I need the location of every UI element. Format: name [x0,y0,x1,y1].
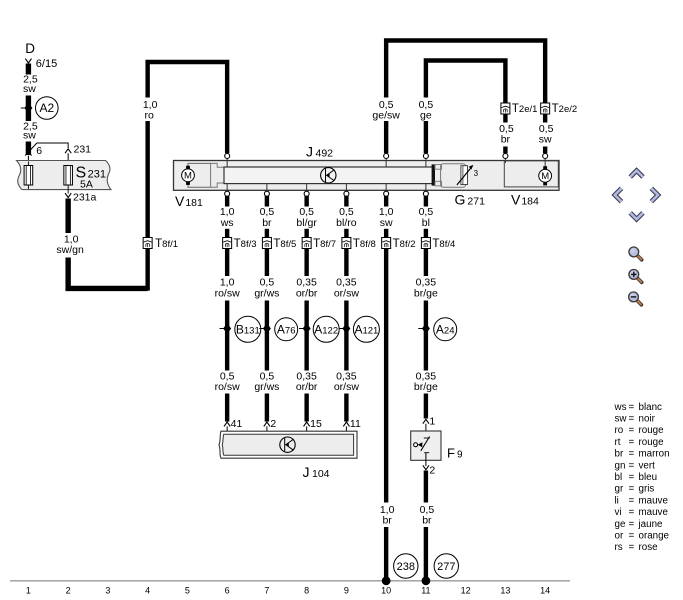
splice A121 [339,323,351,334]
J492 top terminal (col6) [226,158,228,167]
J104 pin 15 [304,422,310,426]
nav arrow right [651,188,658,201]
svg-text:A76: A76 [277,323,296,337]
connector T8f/8 [342,238,351,249]
svg-text:14: 14 [540,586,550,596]
G271 connector funnel [435,165,442,170]
svg-text:gr/ws: gr/ws [254,381,279,393]
wire into connector T8f/8 [344,229,348,238]
connector T8f/3 [223,238,232,249]
wire below T8f/5 [265,249,269,277]
svg-text:=: = [629,495,635,506]
wire into splice [225,301,229,328]
svg-text:9: 9 [344,586,349,596]
connector T8f/2 [382,238,391,249]
svg-text:rouge: rouge [639,437,665,448]
svg-text:rouge: rouge [639,425,665,436]
J492 bottom terminal (col11) [425,184,427,192]
wire col4 lower segment up to T8f/1 [145,249,149,291]
svg-text:J492: J492 [306,143,333,159]
wire into splice [304,301,308,328]
splice A2 [21,103,33,114]
wire stub to V184 terminal [543,147,547,154]
connector T8f/5 [262,238,271,249]
svg-text:=: = [629,402,635,413]
svg-text:10: 10 [381,586,391,596]
wire stub below T2e/1 [503,114,507,123]
wire into connector T8f/7 [304,229,308,238]
svg-text:ro/sw: ro/sw [215,288,241,300]
svg-text:bl: bl [422,217,430,229]
motor V181 [182,166,195,185]
svg-text:A121: A121 [354,323,378,337]
svg-text:=: = [629,519,635,530]
connector T2e/1 [501,103,510,114]
svg-text:A2: A2 [39,101,54,115]
wire 0,35 br/ge down to F9 [424,394,428,419]
svg-text:bleu: bleu [639,472,658,483]
svg-text:sw: sw [380,217,393,229]
svg-text:6: 6 [36,145,42,157]
svg-text:F9: F9 [447,445,463,460]
wire down to J104 [304,394,308,422]
svg-text:br: br [422,515,432,527]
svg-text:gris: gris [639,484,655,495]
nav arrow down [630,213,643,219]
svg-text:ws: ws [220,217,234,229]
wire down to J104 [344,394,348,422]
svg-text:T8f/1: T8f/1 [155,238,178,250]
F9 pin 2 [423,465,429,469]
svg-text:G271: G271 [455,191,486,207]
wire into connector T8f/2 [384,229,388,238]
svg-text:7: 7 [264,586,269,596]
K relay symbol of J104 [280,437,295,452]
svg-text:8: 8 [304,586,309,596]
zoom tool (drag) [629,247,642,260]
wire down to fuse terminal 6 [26,142,31,156]
svg-text:gn: gn [615,460,626,471]
wire below T8f/8 [344,249,348,277]
J492 bottom terminal (col6) [226,184,228,192]
svg-text:2: 2 [270,418,276,430]
svg-text:A122: A122 [314,323,338,337]
svg-text:M: M [541,171,549,182]
inner control module box [224,167,433,184]
svg-text:1: 1 [26,586,31,596]
svg-text:5: 5 [185,586,190,596]
inner box right terminal bar [432,164,435,185]
svg-text:mauve: mauve [639,495,669,506]
svg-text:15: 15 [310,418,322,430]
wire 1,0 sw/gn vertical upper [65,199,70,234]
wire 1,0 sw/gn vertical lower + elbow to col4 [68,258,147,289]
wire stub to J492 terminal [503,147,507,154]
wire stub below J492 (T8f/3 column) [225,196,229,207]
splice A76 [259,323,271,334]
wire 2,5 sw lower segment [26,110,31,122]
motor V184 [539,166,552,185]
control unit J104 box (torn left edge) [219,431,357,458]
connector T8f/4 [421,238,430,249]
fuse S231 5A [67,166,69,194]
svg-text:sw: sw [615,414,628,425]
svg-text:rt: rt [615,437,621,448]
svg-text:ge: ge [615,519,626,530]
svg-text:bl/ro: bl/ro [336,217,357,229]
motor V181 wiring [188,163,211,187]
svg-text:4: 4 [145,586,150,596]
svg-text:ro/sw: ro/sw [215,381,241,393]
terminal 6/15 [25,59,31,63]
svg-text:V181: V181 [175,193,203,209]
wire into splice A2 [26,96,31,107]
wire below T8f/3 [225,249,229,277]
svg-text:6: 6 [225,586,230,596]
fuse (left, unlabelled) [27,162,29,190]
fuse panel strip (torn edges) [17,161,112,190]
wire into splice [344,301,348,328]
splice A24 [418,323,430,334]
terminal pin 231 on fuse panel [65,149,71,153]
wire 2,5 sw upper segment [26,64,31,75]
svg-text:ws: ws [614,402,627,413]
J104 pin 41 [224,422,230,426]
wire into connector T8f/4 [424,229,428,238]
svg-text:br/ge: br/ge [414,381,438,393]
J492 bottom terminal (col10) [385,184,387,192]
wire 0,5 br below F9 [424,471,428,503]
svg-text:12: 12 [461,586,471,596]
svg-text:blanc: blanc [639,402,663,413]
wire to ground point 238 [384,527,388,578]
nav arrow up [630,171,643,177]
connector T8f/1 [143,238,152,249]
svg-text:T8f/2: T8f/2 [393,238,416,250]
connector T2e/2 [541,103,550,114]
svg-text:sw: sw [23,130,36,142]
wire 1,0 sw / br down to ground 238 [384,249,388,503]
svg-text:231: 231 [74,144,92,156]
zoom out tool [629,292,642,305]
svg-text:11: 11 [421,586,430,596]
nav arrow left [615,188,622,201]
wire below T8f/7 [304,249,308,277]
svg-text:=: = [629,472,635,483]
svg-text:2: 2 [66,586,71,596]
svg-text:J104: J104 [303,464,330,480]
wire stub below J492 (T8f/5 column) [265,196,269,207]
wire stub below T2e/2 [543,114,547,123]
wire col4 middle segment [145,121,149,238]
wire down to J104 [265,394,269,422]
wire below splice B131 [225,330,229,371]
wire 0,5 ge/sw col10 up [384,121,388,153]
svg-text:br: br [615,449,624,460]
svg-text:=: = [629,507,635,518]
svg-text:D: D [25,41,35,56]
svg-text:sw: sw [539,133,552,145]
branch wire to terminal 231 [30,143,68,151]
svg-text:or/br: or/br [296,381,318,393]
svg-text:V184: V184 [511,191,539,207]
V184 compartment [504,161,558,187]
wire down to J104 [225,394,229,422]
svg-text:vert: vert [639,460,656,471]
wire stub below J492 (T8f/2 column) [384,196,388,207]
svg-text:5A: 5A [80,179,93,191]
svg-text:or: or [615,531,624,542]
wire below splice A122 [304,330,308,371]
J492 top terminal (col14) [543,154,548,159]
wire into splice [424,301,428,328]
wire stub below J492 (T8f/7 column) [304,196,308,207]
svg-text:=: = [629,542,635,553]
wire col11 -> inner elbow -> col13 [426,61,506,104]
svg-text:li: li [615,495,619,506]
connector T8f/7 [302,238,311,249]
J492 top terminal (col13) [504,158,506,163]
svg-text:2: 2 [429,465,435,477]
svg-text:T2e/1: T2e/1 [512,103,538,115]
wire below T8f/4 [424,249,428,277]
svg-text:or/sw: or/sw [334,288,360,300]
svg-text:rs: rs [615,542,623,553]
svg-text:11: 11 [350,418,361,430]
F9 pin 1 [423,419,429,423]
svg-text:1: 1 [429,415,435,427]
svg-text:br: br [262,217,272,229]
svg-text:ro: ro [144,109,153,121]
svg-text:orange: orange [639,531,670,542]
svg-text:T8f/5: T8f/5 [273,238,296,250]
svg-text:=: = [629,425,635,436]
svg-text:T8f/3: T8f/3 [234,238,257,250]
svg-text:=: = [629,460,635,471]
zoom in tool [629,270,642,283]
svg-text:238: 238 [397,561,415,573]
svg-text:rose: rose [639,542,659,553]
splice B131 [220,323,232,334]
terminal pin 231a [65,193,71,197]
motor V184 feed line [544,158,546,167]
J492 bottom terminal (col7) [266,184,268,192]
svg-text:sw: sw [23,83,36,95]
svg-text:=: = [629,449,635,460]
J104 pin 2 [264,422,270,426]
svg-text:6/15: 6/15 [36,58,57,70]
wire below splice A121 [344,330,348,371]
svg-text:=: = [629,484,635,495]
J492 top terminal (col11) [425,158,427,167]
svg-text:A24: A24 [436,323,455,337]
svg-text:bl/gr: bl/gr [296,217,317,229]
terminal pin 6 on fuse panel [25,151,31,155]
svg-text:13: 13 [500,586,510,596]
svg-text:=: = [629,531,635,542]
J492 bottom terminal (col8) [306,184,308,192]
svg-text:noir: noir [639,414,656,425]
ground point 238 [382,576,391,585]
grid numbers 1-14 [26,586,550,596]
svg-text:3: 3 [105,586,110,596]
svg-text:T8f/4: T8f/4 [432,238,455,250]
wire below splice A76 [265,330,269,371]
svg-text:bl: bl [615,472,623,483]
svg-text:T8f/8: T8f/8 [353,238,376,250]
svg-text:T8f/7: T8f/7 [313,238,336,250]
F9 switch contact [424,437,430,439]
J104 pin 11 [343,422,349,426]
J492 top terminal (col10) [385,158,387,167]
potentiometer G271 [461,166,468,185]
svg-text:ge: ge [420,109,432,121]
V181 connector funnel [211,163,224,187]
svg-text:231a: 231a [73,192,97,204]
svg-text:br/ge: br/ge [414,288,438,300]
svg-text:marron: marron [639,449,670,460]
svg-text:ge/sw: ge/sw [372,109,400,121]
svg-text:ro: ro [615,425,624,436]
svg-text:mauve: mauve [639,507,669,518]
svg-text:=: = [629,437,635,448]
svg-text:sw/gn: sw/gn [56,244,84,256]
svg-text:br: br [501,133,511,145]
wire stub below J492 (T8f/8 column) [344,196,348,207]
colour code legend [614,402,670,553]
splice A122 [299,323,311,334]
svg-text:gr: gr [615,484,624,495]
wire below splice A24 [424,330,428,371]
wire into connector T8f/5 [265,229,269,238]
svg-text:gr/ws: gr/ws [254,288,279,300]
svg-text:br: br [382,515,392,527]
svg-text:jaune: jaune [638,519,664,530]
svg-text:B131: B131 [236,323,260,337]
control unit J492 outer box [174,161,560,191]
svg-text:vi: vi [615,507,622,518]
svg-text:or/br: or/br [296,288,318,300]
wire stub below J492 (T8f/4 column) [424,196,428,207]
J492 bottom terminal (col9) [345,184,347,192]
wire to ground point 277 [424,527,428,578]
bottom reference line [10,580,570,582]
wire into splice [265,301,269,328]
svg-text:3: 3 [474,169,479,178]
svg-text:or/sw: or/sw [334,381,360,393]
svg-text:=: = [629,414,635,425]
svg-text:277: 277 [437,561,455,573]
svg-text:T2e/2: T2e/2 [552,103,578,115]
switch F9 box [411,431,441,460]
svg-text:41: 41 [231,418,243,430]
wire 0,5 ge col11 up [424,121,428,153]
wire col10 -> top elbow -> col14 [386,41,545,104]
K relay symbol of J492 [321,168,336,183]
ground point 277 [422,576,431,585]
wire col4 top segment + elbow to col6 [148,62,228,153]
svg-text:M: M [184,171,192,182]
wire into connector T8f/3 [225,229,229,238]
